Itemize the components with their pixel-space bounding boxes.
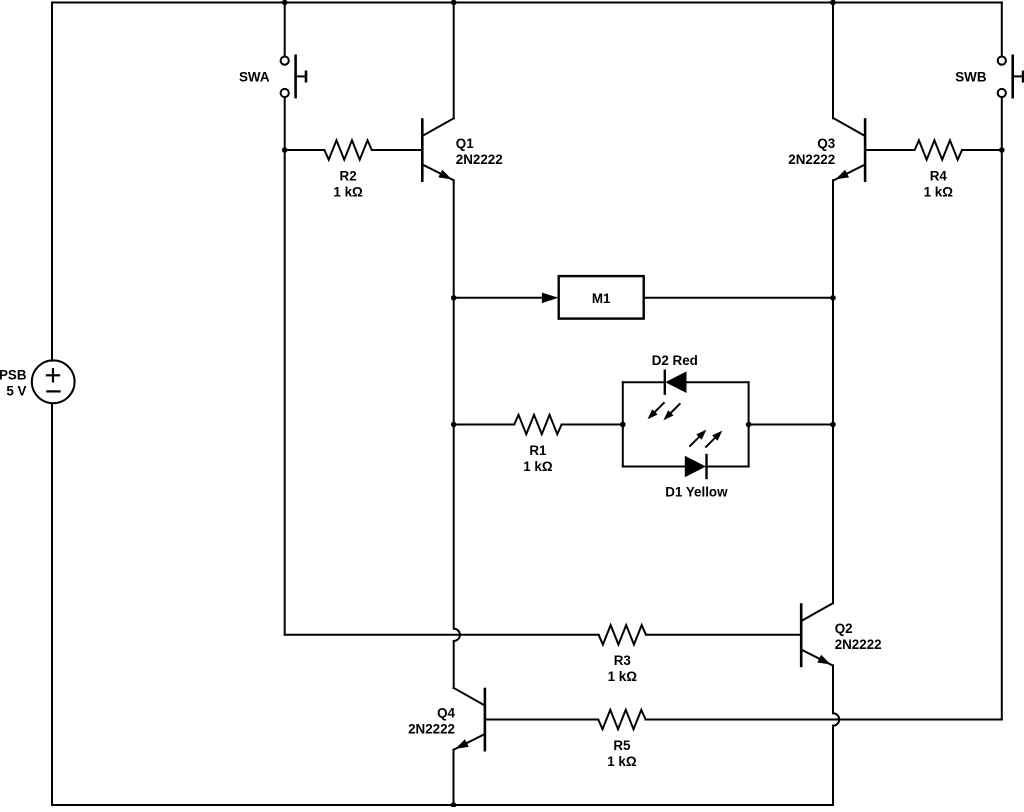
svg-text:R3: R3 [614,653,631,668]
wire left branch down [284,150,286,635]
value label R4 [924,168,954,199]
wire bottom rail [52,804,833,806]
svg-text:D1 Yellow: D1 Yellow [665,485,728,500]
voltage source PSB 5V [32,360,75,403]
label Q4 [408,706,455,737]
resistor R3 [599,625,801,644]
svg-text:1 kΩ: 1 kΩ [607,754,637,769]
label Q1 [456,136,503,167]
node LED block right [746,422,752,428]
arrow into M1 [542,293,559,304]
wire hop over R5 row [833,713,839,725]
svg-text:2N2222: 2N2222 [456,152,503,167]
wire SWB top lead [1001,3,1003,57]
label PSB 5V [0,368,27,399]
node bottom rail / Q4 emitter [451,802,457,808]
transistor Q3 (2N2222 NPN) [834,118,865,182]
LED D1 Yellow (points right) [685,454,707,479]
wire Q4 emitter to bottom rail [453,750,455,805]
resistor R4 [866,140,1002,159]
transistor Q1 (2N2222 NPN) [422,118,453,182]
wire Q1 emitter down to hop [453,180,455,628]
wire M1 to right branch [644,297,833,299]
svg-text:SWA: SWA [239,70,270,85]
svg-text:Q4: Q4 [437,706,455,721]
svg-text:1 kΩ: 1 kΩ [608,669,638,684]
svg-text:M1: M1 [592,291,611,306]
svg-text:D2 Red: D2 Red [652,353,698,368]
resistor R5 [486,710,646,729]
resistor R1 [454,415,623,434]
wire SWA top lead [284,3,286,57]
wire left rail lower [51,403,53,805]
switch SWB pushbutton [998,55,1023,99]
LED emission arrows D2 [648,402,681,420]
node SWA / R2 junction [282,147,288,153]
wire Q3 emitter down to Q2 collector [832,180,834,603]
node top rail / Q1 collector [451,0,457,5]
LED parallel block frame [623,382,749,466]
node LED block left [620,422,626,428]
wire Q2 emitter to bottom rail [832,726,834,805]
wire Q3 collector up [832,3,834,119]
motor M1 box [559,276,644,319]
wire top rail V+ [52,2,1002,4]
svg-text:2N2222: 2N2222 [835,637,882,652]
wire down to Q4 collector [453,641,455,688]
node top rail / SWA [282,0,288,5]
node SWB / R4 junction [999,147,1005,153]
wire R5 row right [646,719,1002,721]
transistor Q2 (2N2222 NPN) [801,603,832,667]
wire left rail upper [51,3,53,361]
svg-text:1 kΩ: 1 kΩ [523,459,553,474]
svg-text:Q2: Q2 [835,621,853,636]
LED emission arrows D1 [689,430,722,448]
svg-text:2N2222: 2N2222 [408,722,455,737]
svg-text:1 kΩ: 1 kΩ [333,184,363,199]
wire LED block to right branch [749,424,833,426]
svg-text:Q1: Q1 [456,136,474,151]
wire SWA bottom lead [284,97,286,150]
value label R2 [333,168,363,199]
svg-text:PSB: PSB [0,368,27,383]
svg-text:R4: R4 [930,168,948,183]
wire R3 row left [285,634,599,636]
label Q2 [835,621,882,652]
wire Q1 collector up [453,3,455,119]
value label R1 [523,443,553,474]
wire hop over R3 row [454,629,460,641]
wire to M1 arrow [454,297,542,299]
svg-text:1 kΩ: 1 kΩ [924,184,954,199]
node top rail / Q3 collector [830,0,836,5]
svg-text:R5: R5 [613,738,631,753]
svg-text:R2: R2 [340,168,357,183]
node R1 left junction [451,422,457,428]
transistor Q4 (2N2222 NPN) [454,688,485,752]
svg-text:R1: R1 [529,443,547,458]
LED D2 Red (points left) [665,370,687,395]
label Q3 [788,136,835,167]
value label R5 [607,738,637,769]
svg-text:Q3: Q3 [817,136,835,151]
wire right branch down [1001,97,1003,719]
resistor R2 [285,140,422,159]
svg-text:SWB: SWB [955,70,987,85]
node M1 right junction [830,295,836,301]
value label R3 [608,653,638,684]
svg-text:2N2222: 2N2222 [788,152,835,167]
switch SWA pushbutton [281,55,306,99]
wire Q2 emitter down to hop [832,665,834,713]
node LED row right junction [830,422,836,428]
node M1 left junction [451,295,457,301]
svg-text:5 V: 5 V [6,384,26,399]
